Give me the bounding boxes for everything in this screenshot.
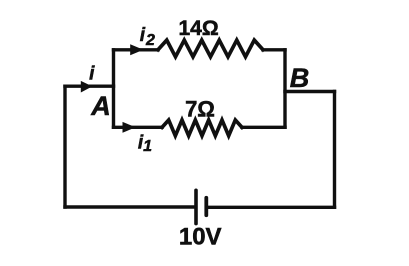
wire: top branch right lead xyxy=(263,48,285,51)
svg-text:B: B xyxy=(290,63,310,93)
svg-text:14Ω: 14Ω xyxy=(178,17,218,40)
wire: bottom branch right lead xyxy=(242,126,285,129)
arrow: current i1 in bottom branch xyxy=(123,122,136,133)
svg-text:7Ω: 7Ω xyxy=(185,97,215,122)
resistor R1 14Ω zigzag xyxy=(158,40,263,57)
wire: left vertical side xyxy=(63,86,66,207)
wire: node B to right side xyxy=(285,90,335,93)
svg-text:A: A xyxy=(90,91,111,121)
wire: top branch left lead xyxy=(114,48,159,51)
arrow: current i into node A xyxy=(81,81,93,93)
wire: node A vertical bar xyxy=(112,50,115,128)
wire: battery to bottom left xyxy=(65,205,195,208)
svg-text:i: i xyxy=(140,25,146,46)
arrow: current i2 in top branch xyxy=(130,44,143,55)
resistor R2 7Ω zigzag xyxy=(162,120,242,136)
svg-text:1: 1 xyxy=(143,138,152,155)
wire: bottom right to battery xyxy=(208,206,335,209)
wire: bottom branch left lead xyxy=(114,126,163,129)
wire: node B vertical bar xyxy=(283,50,286,128)
svg-text:i: i xyxy=(89,63,95,84)
wire: feed into node A xyxy=(65,84,114,87)
svg-text:10V: 10V xyxy=(179,224,222,251)
svg-text:2: 2 xyxy=(145,32,155,49)
wire: right vertical side xyxy=(333,92,336,208)
battery V1 short plate (-) xyxy=(204,198,208,215)
battery V1 long plate (+) xyxy=(194,190,198,223)
